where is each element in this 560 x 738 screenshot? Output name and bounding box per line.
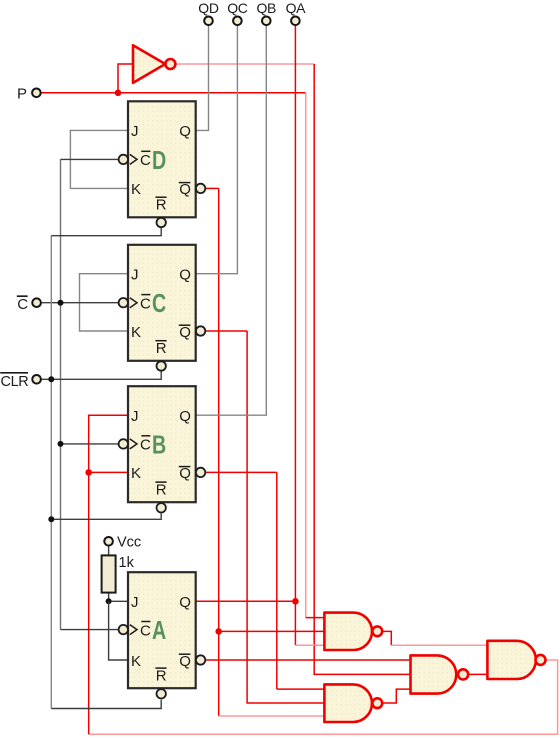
wire NAND1 output to NAND4 input 1 xyxy=(382,631,391,645)
svg-text:K: K xyxy=(131,181,141,198)
wire CLR to FF D R xyxy=(51,228,161,236)
junction QA / FF A Q xyxy=(292,598,299,605)
flip-flop UA (JK) body xyxy=(128,572,196,688)
terminal QA xyxy=(286,0,307,25)
wire NAND2 output to NAND4 input 2 xyxy=(469,673,488,675)
nand gate U1 xyxy=(324,613,382,650)
svg-text:Q: Q xyxy=(179,181,191,198)
terminal Vcc xyxy=(104,535,141,551)
Qbar output bubble xyxy=(196,468,205,477)
wire FF D J-K loop xyxy=(70,130,128,188)
wire feedback vertical to FF B J xyxy=(89,415,128,734)
clock bubble (negative edge) xyxy=(119,439,128,448)
wire P to inverter input (vertical) xyxy=(118,64,133,93)
junction CLR FF B xyxy=(48,516,54,522)
svg-text:C: C xyxy=(140,296,151,313)
clock edge triangle xyxy=(130,439,137,449)
terminal QD xyxy=(198,0,219,25)
wire NAND1 input 1 stub xyxy=(306,617,325,619)
wire FF D Qbar horizontal xyxy=(205,187,218,189)
Qbar output bubble xyxy=(196,184,205,193)
junction Cbar xyxy=(58,300,64,306)
svg-text:Q: Q xyxy=(179,123,191,140)
svg-text:R: R xyxy=(156,340,167,357)
svg-text:J: J xyxy=(131,408,139,425)
wire FF C Qbar vertical xyxy=(247,331,324,703)
wire P vertical down to NAND1 input 1 xyxy=(305,93,307,618)
clock bubble (negative edge) xyxy=(119,625,128,634)
svg-text:QD: QD xyxy=(198,0,219,16)
wire NAND4 output feedback: right and bottom xyxy=(89,660,558,734)
terminal P xyxy=(17,85,41,102)
svg-text:1k: 1k xyxy=(119,555,135,571)
R input bubble xyxy=(157,361,166,370)
wire QA terminal vertical xyxy=(294,25,296,601)
junction P/inverter xyxy=(115,90,122,97)
inverter U5 xyxy=(133,45,175,83)
wire Cbar to FF A clock xyxy=(61,629,119,631)
wire FF C Qbar horizontal xyxy=(205,330,247,332)
svg-text:P: P xyxy=(17,85,27,102)
terminal CLRbar xyxy=(0,373,41,390)
svg-text:C: C xyxy=(152,288,166,318)
wire inverter output vertical to NAND2 input 2 xyxy=(314,64,410,674)
junction FF A J xyxy=(106,598,112,604)
wire FF D Qbar to NAND3 input 3 xyxy=(219,715,325,717)
svg-text:J: J xyxy=(131,594,139,611)
R input bubble xyxy=(157,503,166,512)
svg-text:C: C xyxy=(17,296,28,313)
svg-text:Q: Q xyxy=(179,408,191,425)
svg-text:C: C xyxy=(140,437,151,454)
wire NAND3 input 1 stub xyxy=(277,688,325,690)
wire FF D Qbar vertical xyxy=(218,188,220,716)
R input bubble xyxy=(157,689,166,698)
svg-text:QB: QB xyxy=(256,0,276,16)
svg-text:J: J xyxy=(131,123,139,140)
svg-text:A: A xyxy=(152,615,166,645)
terminal QB xyxy=(256,0,276,25)
wire FF B Qbar horizontal xyxy=(205,471,276,473)
wire inverter output horizontal xyxy=(175,63,314,65)
svg-text:QA: QA xyxy=(286,0,307,16)
clock bubble (negative edge) xyxy=(119,155,128,164)
wire Vcc lead to resistor xyxy=(108,546,110,556)
Qbar output bubble xyxy=(196,326,205,335)
wire NAND3 output to NAND2 input 3 xyxy=(382,689,411,703)
flip-flop UD (JK) body xyxy=(128,101,196,217)
svg-text:C: C xyxy=(140,622,151,639)
terminal QC xyxy=(227,0,248,25)
wire FF C J-K loop xyxy=(80,274,129,331)
clock edge triangle xyxy=(130,625,137,635)
svg-text:Q: Q xyxy=(179,267,191,284)
wire NAND1 input 3 stub xyxy=(295,644,324,646)
svg-text:K: K xyxy=(131,653,141,670)
svg-text:R: R xyxy=(156,668,167,685)
junction CLR xyxy=(48,376,54,382)
Qbar output bubble xyxy=(196,655,205,664)
wire P horizontal xyxy=(41,92,306,94)
wire CLR to FF A R xyxy=(51,700,161,709)
svg-text:K: K xyxy=(131,465,141,482)
wire Cbar vertical xyxy=(60,159,62,629)
wire Cbar to FF B clock xyxy=(61,443,119,445)
svg-text:R: R xyxy=(156,482,167,499)
svg-text:C: C xyxy=(140,152,151,169)
flip-flop C xyxy=(119,245,206,371)
nand gate U2 xyxy=(411,655,469,693)
wire FF B K stub xyxy=(89,471,128,473)
svg-text:Q: Q xyxy=(179,594,191,611)
wire QC net xyxy=(196,25,238,274)
svg-text:J: J xyxy=(131,267,139,284)
flip-flop A xyxy=(119,572,206,698)
flip-flop UB (JK) body xyxy=(128,386,196,502)
terminal Cbar xyxy=(17,296,41,313)
svg-text:D: D xyxy=(152,145,166,175)
wire CLR to FF B R xyxy=(51,513,161,519)
nand gate U4 xyxy=(487,641,545,679)
flip-flop UC (JK) body xyxy=(128,245,196,361)
wire FF A J-K xyxy=(109,601,128,660)
wire Cbar to FF D clock xyxy=(61,158,119,160)
svg-text:R: R xyxy=(156,197,167,214)
wire Cbar terminal stub xyxy=(41,302,119,304)
wire FF A Q horizontal xyxy=(196,600,296,602)
wire CLR terminal to FF C R xyxy=(41,371,161,379)
svg-text:CLR: CLR xyxy=(1,374,29,390)
clock bubble (negative edge) xyxy=(119,298,128,307)
R input bubble xyxy=(157,218,166,227)
svg-text:Q: Q xyxy=(179,324,191,341)
resistor R1 1k xyxy=(102,555,135,593)
wire QD net xyxy=(196,25,209,130)
svg-text:Vcc: Vcc xyxy=(117,535,141,551)
flip-flop D xyxy=(119,101,206,227)
clock edge triangle xyxy=(130,298,137,308)
wire QA down to NAND1 input 3 xyxy=(294,601,296,645)
clock edge triangle xyxy=(130,154,137,164)
junction FF D Qbar branch xyxy=(215,628,222,635)
junction Cbar FF B xyxy=(58,441,64,447)
svg-text:B: B xyxy=(152,429,166,459)
wire CLR vertical xyxy=(50,236,52,709)
svg-text:Q: Q xyxy=(179,465,191,482)
wire FF B Qbar vertical to NAND3 input 1 xyxy=(276,472,278,689)
svg-text:Q: Q xyxy=(179,653,191,670)
nand gate U3 xyxy=(324,684,382,722)
wire resistor to FF A J xyxy=(109,593,128,602)
flip-flop B xyxy=(119,386,206,512)
svg-text:QC: QC xyxy=(227,0,248,16)
junction FF B J/K xyxy=(85,469,92,476)
svg-text:K: K xyxy=(131,324,141,341)
wire QB net xyxy=(196,25,267,415)
wire FF D Qbar to NAND1 input 2 xyxy=(219,630,325,632)
wire FF A Qbar to NAND2 input 1 xyxy=(205,659,410,661)
